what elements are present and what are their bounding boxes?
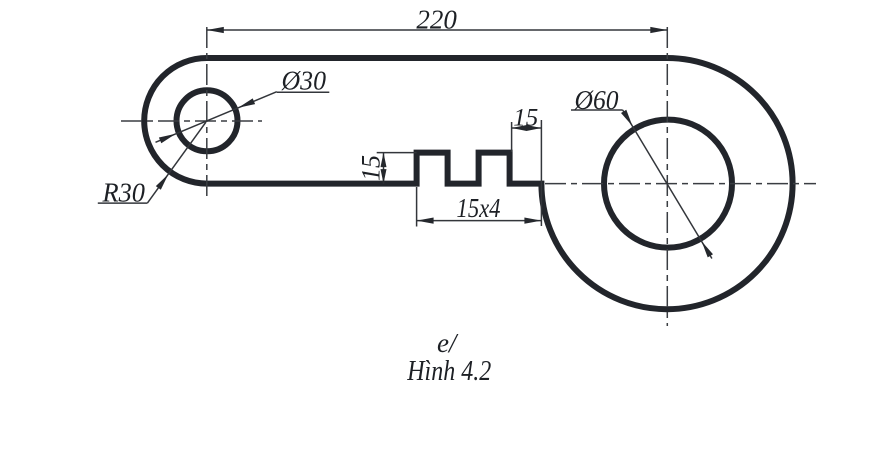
svg-text:220: 220: [416, 5, 457, 35]
hole Ø30 left: [177, 90, 238, 151]
svg-text:e/: e/: [437, 328, 459, 358]
svg-text:15: 15: [357, 155, 386, 181]
svg-text:Hình 4.2: Hình 4.2: [406, 356, 491, 387]
dimension 15 vertical: [377, 153, 417, 184]
center line right horizontal: [545, 183, 816, 185]
dimension Ø60 leader: [571, 110, 712, 259]
svg-text:15x4: 15x4: [457, 193, 501, 223]
center line left horizontal: [121, 120, 262, 122]
dimension R30 leader: [98, 122, 206, 203]
dimension Ø30 leader: [156, 92, 330, 143]
hole Ø60 right: [604, 120, 732, 248]
center line right vertical: [666, 27, 668, 326]
dimension 15x4: [417, 187, 542, 227]
svg-text:15: 15: [513, 105, 538, 132]
dimension 15 top: [512, 120, 542, 226]
part outline: [144, 58, 792, 309]
center line left vertical: [206, 27, 208, 197]
svg-text:Ø30: Ø30: [281, 66, 327, 96]
svg-text:R30: R30: [102, 178, 146, 208]
dimension 220: [207, 29, 668, 31]
svg-text:Ø60: Ø60: [574, 85, 619, 115]
